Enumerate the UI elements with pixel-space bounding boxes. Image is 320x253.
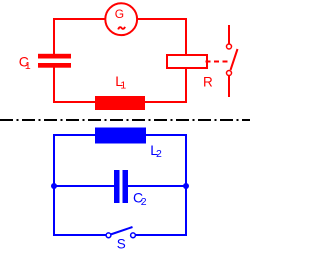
wire bottom left (blue) — [54, 234, 107, 236]
wire left upper (red) — [53, 18, 55, 58]
node junction left — [51, 183, 57, 189]
svg-text:R: R — [203, 74, 213, 89]
svg-text:S: S — [117, 237, 126, 252]
wire bottom (red, primary loop bottom side) — [53, 101, 187, 103]
svg-text:1: 1 — [120, 79, 126, 91]
svg-text:1: 1 — [25, 60, 31, 72]
wire top (blue, secondary loop top side) — [53, 134, 187, 136]
generator G — [105, 3, 137, 35]
svg-text:G: G — [115, 7, 124, 21]
dashed mechanical link R to switch — [206, 61, 228, 63]
capacitor C2 — [114, 170, 147, 208]
inductor L2 — [95, 128, 162, 161]
wire left (blue) — [53, 134, 55, 236]
switch (red, right side) — [227, 25, 238, 97]
svg-text:2: 2 — [141, 196, 147, 208]
wire right (red) — [185, 18, 187, 103]
capacitor C1 — [19, 54, 71, 72]
inductor L1 — [95, 73, 145, 110]
resistor R — [167, 55, 213, 89]
switch S — [106, 227, 135, 252]
wire top (red, primary loop top side) — [53, 18, 187, 20]
wire right (blue) — [185, 134, 187, 236]
wire left lower (red) — [53, 63, 55, 103]
wire bottom right (blue) — [136, 234, 187, 236]
wire middle left (blue, capacitor branch) — [54, 185, 115, 187]
svg-text:2: 2 — [156, 148, 162, 160]
separator axis line (dash-dot) — [0, 119, 250, 121]
node junction right — [183, 183, 189, 189]
wire middle right (blue, capacitor branch) — [127, 185, 186, 187]
